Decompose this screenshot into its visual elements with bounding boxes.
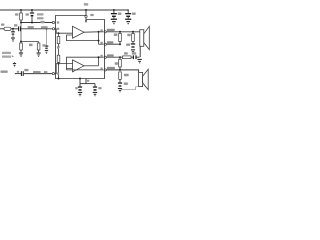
label C8 [118, 13, 122, 15]
label C9 [132, 13, 136, 15]
resistor R9 [20, 10, 22, 13]
pin OUT R [104, 69, 106, 71]
capacitor C2 coupling [21, 71, 22, 76]
wire A2 output [84, 65, 99, 67]
capacitor C11 [133, 55, 134, 59]
label ST-BY [37, 17, 44, 19]
label OUT (L) [107, 29, 115, 31]
label OUT (R) [107, 67, 115, 69]
wire ST-BY line [21, 22, 52, 24]
label IN L [1, 24, 4, 26]
ground under C3 [11, 38, 15, 39]
label pin3 [90, 14, 93, 16]
label C12 [124, 83, 128, 85]
node rail-C6 [31, 9, 33, 11]
wire LS2 return [121, 87, 139, 90]
label C4 [42, 44, 45, 46]
ground under R8a [19, 53, 23, 54]
pin numbers bottom [87, 80, 89, 82]
wire input R [15, 73, 16, 74]
label C1 [14, 24, 17, 26]
op-amp A2 [73, 60, 85, 72]
op-amp A1 [73, 26, 85, 38]
resistor R8b [38, 42, 40, 44]
pin numbers inside right [100, 29, 102, 31]
node rail-R9 [20, 9, 22, 11]
label FB (L) [107, 41, 113, 43]
label R4 [114, 33, 118, 36]
label pin stby [40, 21, 44, 23]
wire A1 fb pin [99, 43, 104, 45]
pin FB L [104, 43, 106, 45]
wire A2 input [55, 64, 73, 74]
label R5 [127, 34, 130, 37]
wire A1 feedback [67, 35, 99, 41]
IC box U1 [56, 16, 105, 79]
pin circle ST-BY [52, 21, 54, 23]
speaker LS2 [139, 72, 143, 86]
ground under C9 [125, 19, 131, 20]
resistor R10 [119, 72, 122, 79]
label pin in R [44, 71, 48, 73]
resistor R4 [119, 32, 121, 34]
label wire R [33, 71, 41, 73]
label R8 [115, 62, 119, 64]
wire A1 input [55, 29, 73, 33]
label C6 [26, 13, 29, 15]
resistor internal Rf2 [57, 55, 60, 62]
capacitor C8 supply [113, 10, 115, 13]
label MUTE STBY note [2, 52, 11, 54]
label MUTE [37, 13, 44, 15]
capacitor C3 shunt [12, 29, 14, 31]
node rail-C9 [127, 9, 129, 11]
wire input L [0, 28, 4, 30]
wire LS1 return stub [139, 46, 141, 57]
pin circle IN R [52, 73, 54, 75]
ground under CP2 [93, 92, 97, 93]
node rail-Vpin [85, 9, 87, 11]
capacitor CP2 [93, 86, 97, 87]
ground under C4 [45, 50, 48, 51]
label mid input [28, 26, 34, 28]
wire A1 output [84, 31, 103, 33]
resistor R6 [123, 56, 132, 59]
ground under C12 [118, 88, 122, 89]
ground under C10 [131, 49, 135, 50]
pin OUT L [104, 31, 106, 33]
capacitor C4 on input line [46, 29, 48, 46]
label R9 [15, 13, 18, 15]
speaker LS1 [140, 30, 144, 47]
label CP1 [75, 87, 78, 89]
pin bottom stubs [79, 78, 81, 80]
resistor R1 [4, 27, 11, 30]
capacitor CP1 [79, 84, 81, 87]
capacitor C1 coupling [18, 26, 19, 31]
ground under CP1 [78, 92, 82, 93]
resistor R8a [20, 43, 23, 50]
node rail-C8 [113, 9, 115, 11]
label CP2 [98, 87, 101, 89]
resistor internal Rf1 [58, 33, 60, 36]
ground under C8 [111, 19, 117, 20]
resistor R8 [119, 57, 121, 59]
wire A2 feedback [67, 57, 104, 68]
label pin in [41, 26, 48, 28]
text labels as grey smudges [1, 3, 137, 89]
pin numbers inside left [57, 21, 59, 23]
label R10 [124, 74, 129, 76]
capacitor C6 [31, 10, 33, 12]
wire A2 out pin [67, 69, 104, 71]
node input L junction [12, 28, 14, 30]
label plus C2 [17, 71, 19, 73]
pin +V supply [85, 10, 87, 15]
capacitor C12 [118, 82, 122, 83]
ground floating mute arrow [14, 62, 16, 63]
ground node right [137, 59, 141, 60]
label R6 [124, 52, 128, 54]
label R8a R8b [29, 44, 33, 47]
wire divider cross y41.5 [21, 41, 39, 43]
label C10 [126, 44, 130, 46]
capacitor C10 [131, 43, 135, 44]
pin circle IN L [52, 28, 54, 30]
label C11 [132, 52, 136, 54]
wire divider column x21 [20, 23, 22, 44]
label +V [84, 3, 88, 6]
resistor R5 [132, 32, 134, 34]
wire supply rail [0, 9, 128, 11]
pin zobel mid [104, 56, 106, 58]
label IN R [1, 71, 8, 73]
label IN (R) pin [107, 54, 114, 56]
label C2 [24, 69, 28, 71]
capacitor C9 supply [127, 10, 129, 13]
ground under R8b [37, 53, 41, 54]
